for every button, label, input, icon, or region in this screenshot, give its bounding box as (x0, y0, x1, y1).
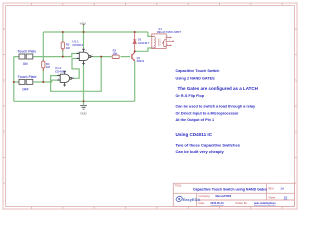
relay K1 (152, 34, 174, 49)
EasyEDA logo (175, 195, 200, 202)
svg-text:Or R-S Flip Flop: Or R-S Flip Flop (176, 94, 205, 98)
svg-text:1: 1 (3, 181, 5, 185)
U1.1 pin numbers (77, 49, 93, 65)
svg-text:MassivT2000: MassivT2000 (216, 194, 232, 198)
svg-text:Touch Plate: Touch Plate (18, 49, 37, 53)
junction node R4 bottom on OFF line (42, 81, 44, 83)
svg-text:CD4011: CD4011 (72, 43, 83, 47)
wire feedback U1.1 out to U1.2 input 1 (51, 57, 102, 92)
svg-text:jean.redelinghuys: jean.redelinghuys (253, 201, 276, 205)
svg-text:3: 3 (3, 78, 5, 82)
svg-text:Can be used to switch a load t: Can be used to switch a load through a r… (176, 104, 257, 108)
svg-text:ON: ON (23, 62, 28, 66)
touch plate ON (2-pad connector) (19, 54, 33, 59)
junction node collector/diode/coil (134, 50, 136, 52)
svg-text:Or Direct Input to a Microproc: Or Direct Input to a Microprocessor (176, 111, 240, 115)
svg-text:TITLE:: TITLE: (175, 185, 183, 188)
svg-text:Can be built very cheaply: Can be built very cheaply (176, 149, 225, 154)
wire U1.1 output node (93, 56, 130, 58)
svg-text:EasyEDA: EasyEDA (183, 197, 201, 202)
junction node R2 bottom on ON line (62, 56, 64, 58)
touch plate OFF (2-pad connector) (19, 79, 33, 84)
svg-text:1/1: 1/1 (284, 195, 288, 199)
svg-text:14: 14 (84, 49, 87, 51)
junction node R2 top (62, 31, 64, 33)
junction node ground rail / GND stub (83, 100, 85, 102)
title block (173, 183, 294, 206)
svg-text:Sheet:: Sheet: (268, 195, 276, 199)
svg-text:10K: 10K (113, 51, 118, 55)
svg-text:Using 2 NAND GATES: Using 2 NAND GATES (176, 77, 216, 81)
annotation text block (176, 69, 258, 154)
svg-text:2015-05-14: 2015-05-14 (211, 201, 225, 205)
NAND gate U1.2 CD4011 (57, 71, 74, 87)
U1.2 pin numbers (58, 74, 74, 81)
svg-text:RELAY-5VDC-SPDT: RELAY-5VDC-SPDT (157, 30, 181, 34)
wire ground rail y=101.3 (14, 100, 135, 102)
svg-text:+5V: +5V (79, 22, 86, 26)
svg-text:The Gates are configured as a: The Gates are configured as a LATCH (178, 86, 258, 91)
svg-text:Drawn By:: Drawn By: (236, 201, 248, 205)
svg-text:REV:: REV: (268, 186, 274, 190)
wire R2 pull-up branch (vertical x=62.8) (62, 32, 64, 57)
svg-text:4: 4 (153, 35, 155, 37)
resistor R4 1M (42, 60, 44, 71)
junction node +5V rail / U1.1 pin14 (83, 31, 85, 33)
svg-text:1M: 1M (46, 65, 51, 69)
svg-text:1N4148-7: 1N4148-7 (138, 41, 150, 45)
relay pin numbers (153, 35, 170, 48)
resistor R2 1M (62, 41, 64, 51)
svg-text:At the Output of Pin 1: At the Output of Pin 1 (176, 118, 215, 122)
sheet border frame (decorative) (3, 3, 297, 209)
wire relay coil bottom link (135, 48, 152, 51)
wire VCC rail y=32 (43, 31, 148, 33)
svg-text:CD4011: CD4011 (55, 70, 66, 74)
wire GND stub (83, 101, 85, 105)
svg-text:1M: 1M (66, 46, 71, 50)
wire relay coil top link (148, 32, 152, 36)
wire U1.1 pin 7 to ground rail (83, 65, 85, 101)
wire ON touch line y=56.6 (14, 54, 77, 57)
svg-text:S9013: S9013 (137, 59, 145, 63)
diode D1 flyback across relay coil (133, 32, 136, 51)
ground symbol GND (80, 106, 87, 110)
svg-text:OFF: OFF (22, 87, 28, 91)
resistor R3 10K (horizontal) (112, 55, 119, 58)
svg-text:7: 7 (84, 63, 86, 65)
svg-text:Using CD4011 IC: Using CD4011 IC (176, 132, 213, 137)
wire left rail x=13.8 (13, 57, 15, 102)
svg-text:Touch Plate: Touch Plate (18, 75, 37, 79)
junction node diode top / rail (134, 31, 136, 33)
wire feedback U1.2 out to U1.1 input 2 (72, 59, 79, 79)
svg-text:4: 4 (3, 27, 5, 31)
power flag +5V (83, 24, 85, 26)
transistor Q1 (NPN) (132, 51, 135, 61)
svg-text:1.0: 1.0 (280, 186, 284, 190)
svg-text:Two of these Capacitive Switch: Two of these Capacitive Switches (176, 142, 241, 147)
svg-text:Capacitive Touch Switch: Capacitive Touch Switch (176, 69, 221, 73)
svg-text:Capacitive Touch Switch using: Capacitive Touch Switch using NAND Gates (193, 187, 267, 191)
svg-text:GND: GND (80, 111, 86, 115)
wire OFF touch line y=82 (14, 80, 60, 82)
junction node left rail / OFF line (13, 81, 15, 83)
junction node U1.1 output (100, 56, 102, 58)
wire R4 pull-up branch (vertical x=43.3) (42, 32, 44, 82)
svg-text:2: 2 (3, 130, 5, 134)
wire +5V stem to U1.1 pin 14 (83, 26, 85, 49)
NAND gate U1.1 CD4011 (76, 48, 93, 65)
wire Q1 emitter to ground rail (134, 61, 136, 101)
